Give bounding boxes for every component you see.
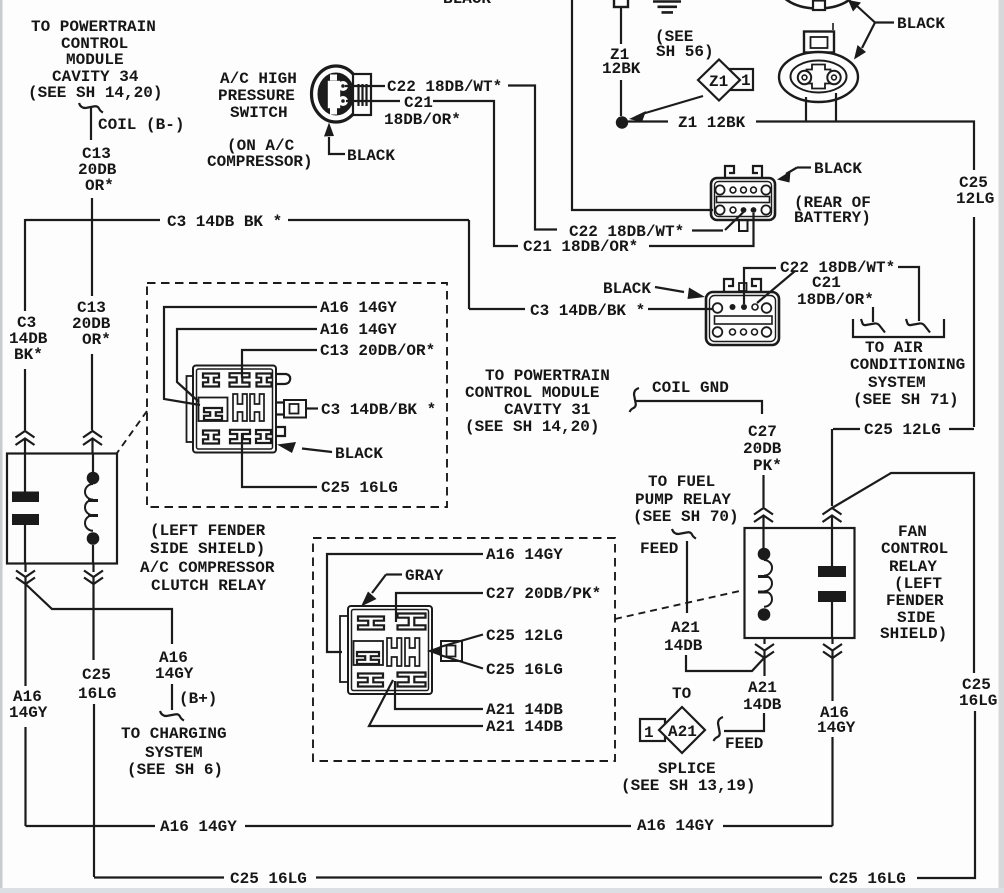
svg-text:A21: A21 <box>671 619 700 637</box>
svg-text:14GY: 14GY <box>9 704 48 722</box>
svg-text:TO POWERTRAIN: TO POWERTRAIN <box>31 18 156 36</box>
leader C13 20DB/OR* <box>242 350 317 378</box>
wire Z1 to junction dot <box>620 80 622 116</box>
leader C27 20DB/PK* <box>396 593 483 622</box>
wire C25 16LG bus <box>94 876 224 878</box>
key slot <box>717 197 770 203</box>
svg-text:C3 14DB/BK *: C3 14DB/BK * <box>321 401 436 419</box>
svg-text:COIL GND: COIL GND <box>652 379 729 397</box>
svg-text:A16 14GY: A16 14GY <box>160 818 237 836</box>
relay contacts (fan) <box>831 528 833 566</box>
pin row top <box>715 185 724 194</box>
ground symbol (top) <box>653 2 681 13</box>
wire C25 below relay <box>92 563 94 572</box>
svg-text:A16 14GY: A16 14GY <box>320 299 397 317</box>
connector Z1 eyelet (partial, top edge) <box>614 0 628 7</box>
wire C25 16LG diagonal branch <box>832 473 974 673</box>
wire Z1 12BK horizontal right / C25 12LG rail <box>756 122 974 171</box>
leader C25 16LG <box>242 433 317 487</box>
dashed detail box (A/C clutch relay connector) <box>147 283 447 507</box>
terminal symbol C22 <box>906 319 930 333</box>
connector battery feed oval 2-way <box>804 32 834 53</box>
wire C22 to A/C system <box>898 267 919 321</box>
svg-text:(LEFT: (LEFT <box>894 575 942 593</box>
keyway (gray) <box>441 641 462 661</box>
svg-text:PK*: PK* <box>753 457 782 475</box>
relay coil (A/C) <box>92 454 94 472</box>
svg-text:COIL (B-): COIL (B-) <box>98 116 184 134</box>
svg-text:C27: C27 <box>748 423 777 441</box>
svg-text:RELAY: RELAY <box>889 558 937 576</box>
svg-text:(SEE SH 13,19): (SEE SH 13,19) <box>621 777 755 795</box>
svg-text:Z1 12BK: Z1 12BK <box>678 114 746 132</box>
svg-text:CONTROL MODULE: CONTROL MODULE <box>465 384 599 402</box>
connector half symbol COIL GND <box>630 388 640 412</box>
arrow to A/C switch (BLACK) <box>329 137 345 154</box>
wire C22 from switch <box>345 85 385 87</box>
wire A21 below relay <box>763 638 765 644</box>
wire A21 feed lower <box>686 655 765 671</box>
svg-text:SYSTEM: SYSTEM <box>868 374 926 392</box>
wire C25 12LG rail <box>973 217 975 427</box>
connector half symbol FEED (fuel pump) <box>672 529 696 539</box>
pin C21 <box>751 207 757 213</box>
svg-text:OR*: OR* <box>82 331 111 349</box>
cavity middle-left <box>199 398 228 422</box>
A/C clutch relay box <box>7 454 117 564</box>
dashed leader to A/C relay <box>117 411 147 453</box>
svg-text:CLUTCH RELAY: CLUTCH RELAY <box>151 577 267 595</box>
svg-text:(SEE SH 6): (SEE SH 6) <box>127 761 223 779</box>
svg-text:TO CHARGING: TO CHARGING <box>121 725 227 743</box>
leader A16 14GY (1) <box>164 307 317 405</box>
pin row bottom <box>715 205 724 214</box>
wire C3 left rail down <box>25 219 469 311</box>
connector half symbol (B+) <box>160 711 184 721</box>
svg-text:A21: A21 <box>748 679 777 697</box>
svg-text:C25 16LG: C25 16LG <box>486 661 563 679</box>
key slot <box>715 316 773 324</box>
svg-text:C25 12LG: C25 12LG <box>864 421 941 439</box>
svg-text:BK*: BK* <box>14 346 43 364</box>
wire A16 down to bus <box>831 737 833 826</box>
svg-text:GRAY: GRAY <box>405 567 444 585</box>
wire C27 from coil gnd <box>636 401 762 414</box>
svg-text:FEED: FEED <box>725 735 763 753</box>
svg-text:SPLICE: SPLICE <box>658 760 716 778</box>
wire C3 horizontal <box>25 219 160 221</box>
svg-text:18DB/OR*: 18DB/OR* <box>384 111 461 129</box>
svg-text:CONDITIONING: CONDITIONING <box>850 356 965 374</box>
svg-text:C27 20DB/PK*: C27 20DB/PK* <box>486 585 601 603</box>
svg-text:BLACK: BLACK <box>347 147 395 165</box>
svg-text:12LG: 12LG <box>956 190 994 208</box>
arrow BLACK (relay connector) <box>302 449 332 453</box>
leader A16 14GY (2) <box>177 329 317 402</box>
svg-text:(SEE SH 14,20): (SEE SH 14,20) <box>465 418 599 436</box>
wire Z1 from eyelet <box>620 7 622 44</box>
cavity bottom row <box>203 431 219 444</box>
svg-text:PUMP RELAY: PUMP RELAY <box>635 491 731 509</box>
splice box 1 <box>640 719 665 741</box>
svg-text:(SEE SH 14,20): (SEE SH 14,20) <box>28 84 162 102</box>
svg-text:A21 14DB: A21 14DB <box>486 701 563 719</box>
wire A21 to feed splice <box>724 713 764 731</box>
cavity middle H maze <box>387 638 402 666</box>
wire to B+ symbol <box>171 684 173 710</box>
svg-text:C25 16LG: C25 16LG <box>321 479 398 497</box>
terminal pin right <box>827 71 840 84</box>
svg-text:C25 16LG: C25 16LG <box>829 870 906 888</box>
svg-text:FEED: FEED <box>640 540 678 558</box>
dashed detail box (fan relay connector) <box>313 538 615 761</box>
relay contacts (A/C) <box>24 453 26 492</box>
svg-text:A16 14GY: A16 14GY <box>637 817 714 835</box>
bracket TO AIR CONDITIONING <box>853 319 944 337</box>
svg-text:MODULE: MODULE <box>66 51 124 69</box>
svg-text:C21: C21 <box>404 94 433 112</box>
wire C25 to bottom bus <box>93 704 95 877</box>
wire C27 down <box>762 475 764 507</box>
svg-text:CONTROL: CONTROL <box>881 540 948 558</box>
svg-text:C3 14DB BK *: C3 14DB BK * <box>167 213 282 231</box>
svg-text:BLACK: BLACK <box>603 280 651 298</box>
wire C21 pin lead <box>649 213 754 246</box>
cavity middle-left <box>354 641 384 665</box>
pin C22 <box>741 207 747 213</box>
wire C3 left rail to relay <box>24 369 26 430</box>
wire A21 feed <box>686 541 688 613</box>
connector break chevrons C27 <box>754 508 773 515</box>
arrow from Z1 diamond to junction <box>642 96 703 114</box>
svg-text:C3 14DB/BK *: C3 14DB/BK * <box>530 302 645 320</box>
wire A16 below relay <box>831 638 833 644</box>
wire C25 12LG into relay <box>831 429 833 506</box>
wire C22 to corner <box>508 86 557 230</box>
leader A21 14DB (1) <box>395 681 483 709</box>
leader C3 14DB/BK * <box>306 407 318 409</box>
svg-text:A21: A21 <box>668 723 697 741</box>
svg-text:(SEE SH 71): (SEE SH 71) <box>853 391 959 409</box>
pin 2 (C21) of A/C switch <box>338 96 348 106</box>
wire C13 upper stub <box>90 108 92 140</box>
svg-text:A/C COMPRESSOR: A/C COMPRESSOR <box>140 559 275 577</box>
cavity top row <box>203 374 219 387</box>
svg-text:TO FUEL: TO FUEL <box>648 473 715 491</box>
svg-text:PRESSURE: PRESSURE <box>218 87 295 105</box>
wire C13 vertical <box>91 198 93 296</box>
svg-text:14GY: 14GY <box>817 719 856 737</box>
svg-text:BATTERY): BATTERY) <box>794 209 871 227</box>
svg-text:A16 14GY: A16 14GY <box>486 546 563 564</box>
svg-text:SHIELD): SHIELD) <box>880 625 947 643</box>
connector break chevrons C3 wire <box>16 431 35 438</box>
svg-text:C25 12LG: C25 12LG <box>486 627 563 645</box>
pin row top <box>713 303 723 313</box>
svg-text:C21: C21 <box>812 274 841 292</box>
svg-text:Z1: Z1 <box>709 73 728 91</box>
svg-text:FAN: FAN <box>898 523 927 541</box>
cavity middle H maze <box>233 394 247 421</box>
branch A16 to charging <box>26 584 173 644</box>
leader A21 14DB (2) <box>369 680 483 726</box>
keyway C3 <box>276 403 284 415</box>
svg-text:(LEFT FENDER: (LEFT FENDER <box>150 522 266 540</box>
svg-text:18DB/OR*: 18DB/OR* <box>797 291 874 309</box>
connector C22/C21 10-way (rear of battery) <box>711 178 775 220</box>
connector (partial oval, top edge) <box>779 0 857 9</box>
splice box 1 (Z1) <box>722 69 753 90</box>
svg-text:16LG: 16LG <box>78 685 116 703</box>
cavity top row <box>358 617 384 630</box>
center keyway cross <box>807 65 831 89</box>
wire C22 pin lead <box>725 212 744 230</box>
svg-text:TO POWERTRAIN: TO POWERTRAIN <box>485 367 610 385</box>
relay coil (fan) <box>758 548 771 561</box>
svg-text:SIDE SHIELD): SIDE SHIELD) <box>150 540 265 558</box>
arrow + leaders C25 <box>427 646 441 656</box>
pin row bottom <box>713 327 723 337</box>
wire A16 14GY bus <box>26 825 156 827</box>
wire legs from oval connector <box>805 97 807 121</box>
relay connector (black) body <box>187 376 197 442</box>
wire C22 pin lead up <box>744 268 776 304</box>
svg-text:(SEE SH 70): (SEE SH 70) <box>633 508 739 526</box>
svg-text:TO: TO <box>672 685 692 703</box>
svg-text:C13 20DB/OR*: C13 20DB/OR* <box>320 342 435 360</box>
svg-text:14DB: 14DB <box>743 696 782 714</box>
svg-text:TO AIR: TO AIR <box>865 339 923 357</box>
connector bottom tab <box>739 220 748 231</box>
svg-text:A/C HIGH: A/C HIGH <box>220 70 297 88</box>
svg-text:SYSTEM: SYSTEM <box>145 744 203 762</box>
svg-text:COMPRESSOR): COMPRESSOR) <box>207 153 313 171</box>
svg-text:FENDER: FENDER <box>886 592 944 610</box>
cavity bottom row <box>358 674 383 687</box>
connector lock tabs <box>725 166 734 177</box>
splice diamond A21 <box>659 707 705 753</box>
svg-text:CAVITY 31: CAVITY 31 <box>504 401 590 419</box>
connector half symbol FEED (splice) <box>714 717 724 741</box>
wire C21 stub to terminal <box>872 307 874 322</box>
wire A16 to bottom bus <box>24 727 26 826</box>
terminal symbol C21 <box>861 319 885 333</box>
svg-text:14GY: 14GY <box>155 665 194 683</box>
svg-text:BLACK: BLACK <box>814 160 862 178</box>
right hook detail <box>276 374 290 384</box>
svg-text:16LG: 16LG <box>959 692 997 710</box>
svg-text:(B+): (B+) <box>179 690 217 708</box>
terminal pin left <box>798 71 811 84</box>
svg-text:1: 1 <box>644 724 654 742</box>
leader A16 14GY <box>327 554 483 652</box>
svg-text:OR*: OR* <box>85 177 114 195</box>
connector break chevrons C13 wire <box>83 431 102 438</box>
wire C21 from switch <box>346 100 400 102</box>
connector lock tabs <box>724 279 733 291</box>
wire C3 into connector <box>648 308 713 310</box>
A/C switch terminal bracket <box>353 74 371 115</box>
svg-text:BLACK: BLACK <box>897 15 945 33</box>
svg-text:C25 16LG: C25 16LG <box>230 870 307 888</box>
svg-text:BLACK: BLACK <box>335 445 383 463</box>
wire Z1 12BK horizontal <box>628 120 668 122</box>
svg-text:1: 1 <box>741 72 751 90</box>
wire C21 to corner <box>433 101 518 246</box>
pin 1 (C22) of A/C switch <box>338 81 348 91</box>
svg-text:12BK: 12BK <box>602 60 641 78</box>
svg-text:14DB: 14DB <box>664 637 703 655</box>
connector half symbol COIL (B-) <box>79 103 103 113</box>
wire C21 pin lead diagonal <box>757 271 795 303</box>
svg-text:BLACK: BLACK <box>443 0 491 8</box>
svg-text:C25: C25 <box>82 666 111 684</box>
svg-text:20DB: 20DB <box>743 440 782 458</box>
svg-text:A16 14GY: A16 14GY <box>320 321 397 339</box>
wire C25 16LG rail lower <box>917 711 975 878</box>
svg-text:SH 56): SH 56) <box>656 43 714 61</box>
wire Z1 down to battery connector <box>572 0 713 210</box>
connector C3 10-way <box>706 292 779 345</box>
relay connector (gray) body <box>340 616 350 682</box>
junction dot Z1 <box>616 116 628 128</box>
svg-text:C21 18DB/OR*: C21 18DB/OR* <box>523 238 638 256</box>
svg-text:A21 14DB: A21 14DB <box>486 718 563 736</box>
dashed leader to fan relay <box>615 590 744 619</box>
wire A16 below relay <box>24 563 26 572</box>
label C25 12LG (mid) <box>833 428 860 430</box>
splice diamond Z1 <box>698 60 740 101</box>
fan control relay box <box>745 528 855 638</box>
connector A/C high pressure switch (round, black) <box>312 66 361 122</box>
svg-text:SWITCH: SWITCH <box>230 104 288 122</box>
